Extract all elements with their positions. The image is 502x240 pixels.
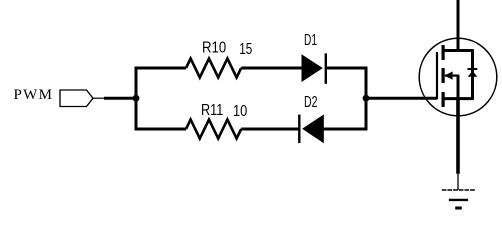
svg-text:R11: R11 — [201, 102, 223, 119]
svg-text:PWM: PWM — [14, 87, 54, 103]
svg-text:10: 10 — [233, 103, 248, 120]
svg-text:15: 15 — [239, 41, 252, 58]
svg-text:D1: D1 — [304, 32, 317, 49]
svg-text:R10: R10 — [202, 39, 227, 56]
svg-text:D2: D2 — [304, 94, 318, 111]
